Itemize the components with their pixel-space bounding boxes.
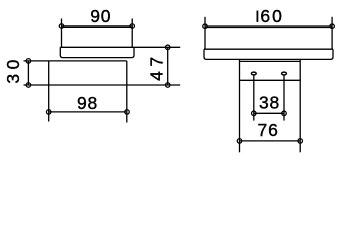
terminator circle 160 left — [203, 24, 208, 29]
left view: rail right edge / 98 dim extension — [126, 61, 128, 123]
terminator circle 98 left — [46, 110, 51, 115]
right view: bracket left edge / 76 dim extension — [239, 59, 241, 152]
left view: lip line extending to 47 dim — [60, 46, 180, 48]
terminator circle 47 bottom — [165, 83, 170, 88]
right view: keyhole stem / 38 dim extension left — [253, 75, 255, 121]
left view: tray band with rounded bottom corners — [60, 47, 134, 57]
terminator circle 90 left — [59, 24, 64, 29]
terminator circle 90 right — [130, 24, 135, 29]
svg-text:90: 90 — [90, 6, 111, 26]
terminator circle 98 right — [125, 110, 130, 115]
terminator circle 30 top — [26, 59, 31, 64]
right view: bracket top edge — [240, 60, 301, 62]
right view: keyhole slot right — [282, 72, 287, 75]
76 dimension line — [240, 140, 301, 142]
terminator circle 76 right — [298, 139, 303, 144]
svg-text:98: 98 — [77, 93, 98, 113]
svg-text:38: 38 — [259, 93, 280, 113]
right view: lip line — [204, 48, 333, 50]
terminator circle 160 right — [330, 24, 335, 29]
right view: bracket inner line — [240, 79, 301, 81]
left view: right extension line of 90 dim / dish right edge — [131, 19, 133, 48]
svg-text:30: 30 — [3, 55, 23, 83]
38 dimension line — [254, 112, 284, 114]
label 160: digit 1 drawn as plain bar — [256, 11, 258, 22]
terminator circle 30 bottom — [26, 83, 31, 88]
right view: left extension of 160 dim / dish left edge — [204, 17, 206, 49]
left view: dish box top edge — [62, 26, 133, 28]
left view: rail top edge extending to 30 dim — [24, 60, 127, 62]
svg-text:60: 60 — [260, 6, 283, 26]
terminator circle 76 left — [237, 139, 242, 144]
terminator circle 38 right — [282, 111, 287, 116]
47 dimension line — [167, 47, 169, 85]
right view: tray band with rounded bottom corners — [204, 49, 333, 59]
left view: dimension line 90 — [62, 25, 133, 27]
right view: dimension line 160 — [205, 25, 332, 27]
left view: left extension line of 90 dim / dish left edge — [61, 19, 63, 48]
right view: dish top edge — [205, 27, 332, 29]
right view: keyhole stem / 38 dim extension right — [283, 75, 285, 121]
svg-text:76: 76 — [258, 120, 279, 140]
right view: right extension of 160 dim / dish right edge — [331, 17, 333, 49]
terminator circle 38 left — [252, 111, 256, 116]
svg-text:47: 47 — [147, 52, 167, 80]
98 dimension line — [49, 111, 127, 113]
left view: rail bottom edge extending to 30 and 47 dims — [24, 84, 181, 86]
30 dimension line — [27, 61, 29, 85]
left view: rail left edge / 98 dim extension — [48, 61, 50, 122]
right view: bracket right edge / 76 dim extension — [299, 59, 301, 152]
terminator circle 47 top — [165, 45, 170, 50]
right view: keyhole slot left — [251, 72, 256, 75]
